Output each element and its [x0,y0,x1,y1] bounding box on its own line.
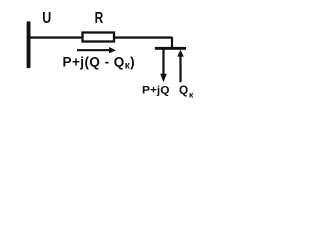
svg-text:U: U [42,10,51,27]
svg-text:R: R [95,10,104,27]
svg-text:Q: Q [179,83,188,97]
svg-text:P+jQ: P+jQ [142,85,170,97]
svg-text:к: к [189,90,194,100]
svg-text:P+j(Q - Qк): P+j(Q - Qк) [63,54,136,71]
